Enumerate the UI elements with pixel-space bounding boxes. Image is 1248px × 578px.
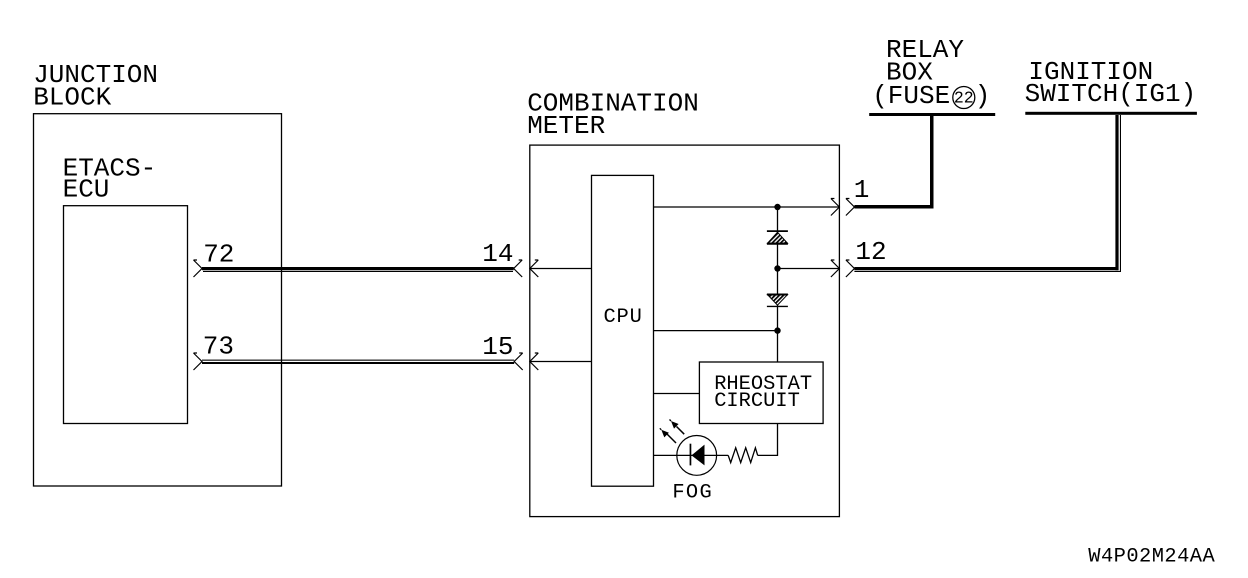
ignition switch (IG1) header bbox=[1025, 57, 1197, 109]
wire 73-15 (thin over medium) bbox=[202, 360, 514, 364]
junction node at pin 12 wire bbox=[774, 265, 780, 271]
junction node at diode chain bottom bbox=[774, 327, 780, 333]
connector chevron wire 12 start bbox=[846, 260, 855, 277]
connector chevron meter border pin 1 bbox=[831, 199, 840, 216]
svg-text:(FUSE: (FUSE bbox=[872, 81, 950, 111]
wire border to CPU pin 15 bbox=[530, 361, 592, 363]
diode lower (pointing down) bbox=[767, 295, 788, 307]
wire CPU to pin 1 bbox=[654, 206, 840, 208]
connector chevron pin 72 bbox=[194, 260, 203, 277]
svg-text:W4P02M24AA: W4P02M24AA bbox=[1088, 546, 1215, 569]
svg-text:SWITCH(IG1): SWITCH(IG1) bbox=[1025, 79, 1197, 109]
svg-text:CIRCUIT: CIRCUIT bbox=[714, 390, 800, 413]
combination meter box bbox=[527, 89, 839, 517]
connector chevron meter border pin 12 bbox=[831, 260, 840, 277]
svg-text:METER: METER bbox=[527, 111, 605, 141]
relay box terminal bar bbox=[869, 113, 995, 116]
svg-text:1: 1 bbox=[854, 175, 870, 205]
LED (FOG indicator) bbox=[677, 436, 717, 476]
diode chain vertical wire bbox=[777, 207, 779, 362]
wire resistor to rheostat bottom bbox=[758, 424, 778, 456]
svg-text:14: 14 bbox=[482, 239, 513, 269]
svg-text:): ) bbox=[975, 81, 991, 111]
fuse 22 circled number bbox=[953, 87, 975, 109]
connector chevron wire 1 start bbox=[846, 199, 855, 216]
diode upper (pointing up) bbox=[767, 231, 788, 244]
ignition switch terminal bar bbox=[1025, 112, 1197, 115]
connector chevron meter border pin 14 bbox=[530, 260, 539, 277]
LED light emission arrows bbox=[660, 420, 684, 444]
wire 72-14 (thick with thin companion) bbox=[202, 267, 514, 272]
connector chevron meter border pin 15 bbox=[530, 353, 539, 370]
resistor (rheostat dimmer) bbox=[728, 448, 758, 463]
ETACS-ECU box bbox=[63, 153, 188, 423]
wire 1 to relay box (thick) bbox=[854, 116, 933, 209]
wire CPU to diode chain bottom bbox=[654, 330, 778, 332]
CPU block bbox=[592, 175, 654, 486]
svg-text:FOG: FOG bbox=[672, 482, 713, 505]
svg-text:22: 22 bbox=[954, 89, 974, 108]
junction node at pin 1 wire bbox=[774, 204, 780, 210]
svg-text:CPU: CPU bbox=[604, 306, 643, 329]
wire node 12 to border bbox=[778, 268, 840, 270]
relay box (fuse 22) header bbox=[872, 35, 990, 111]
rheostat circuit block bbox=[699, 362, 823, 424]
svg-text:ECU: ECU bbox=[63, 175, 110, 205]
connector chevron wire 15 end bbox=[514, 353, 523, 370]
svg-text:BLOCK: BLOCK bbox=[33, 82, 111, 112]
wire CPU to rheostat circuit bbox=[654, 393, 700, 395]
wire border to CPU pin 14 bbox=[530, 268, 592, 270]
wire CPU to LED and resistor bbox=[654, 454, 729, 456]
wire 12 to ignition switch (thick with thin companion) bbox=[854, 115, 1121, 272]
connector chevron wire 14 end bbox=[514, 260, 523, 277]
junction block box bbox=[33, 60, 281, 486]
svg-text:73: 73 bbox=[203, 332, 234, 362]
connector chevron pin 73 bbox=[194, 353, 203, 370]
svg-text:15: 15 bbox=[482, 332, 513, 362]
svg-text:12: 12 bbox=[855, 237, 886, 267]
svg-text:72: 72 bbox=[203, 239, 234, 269]
